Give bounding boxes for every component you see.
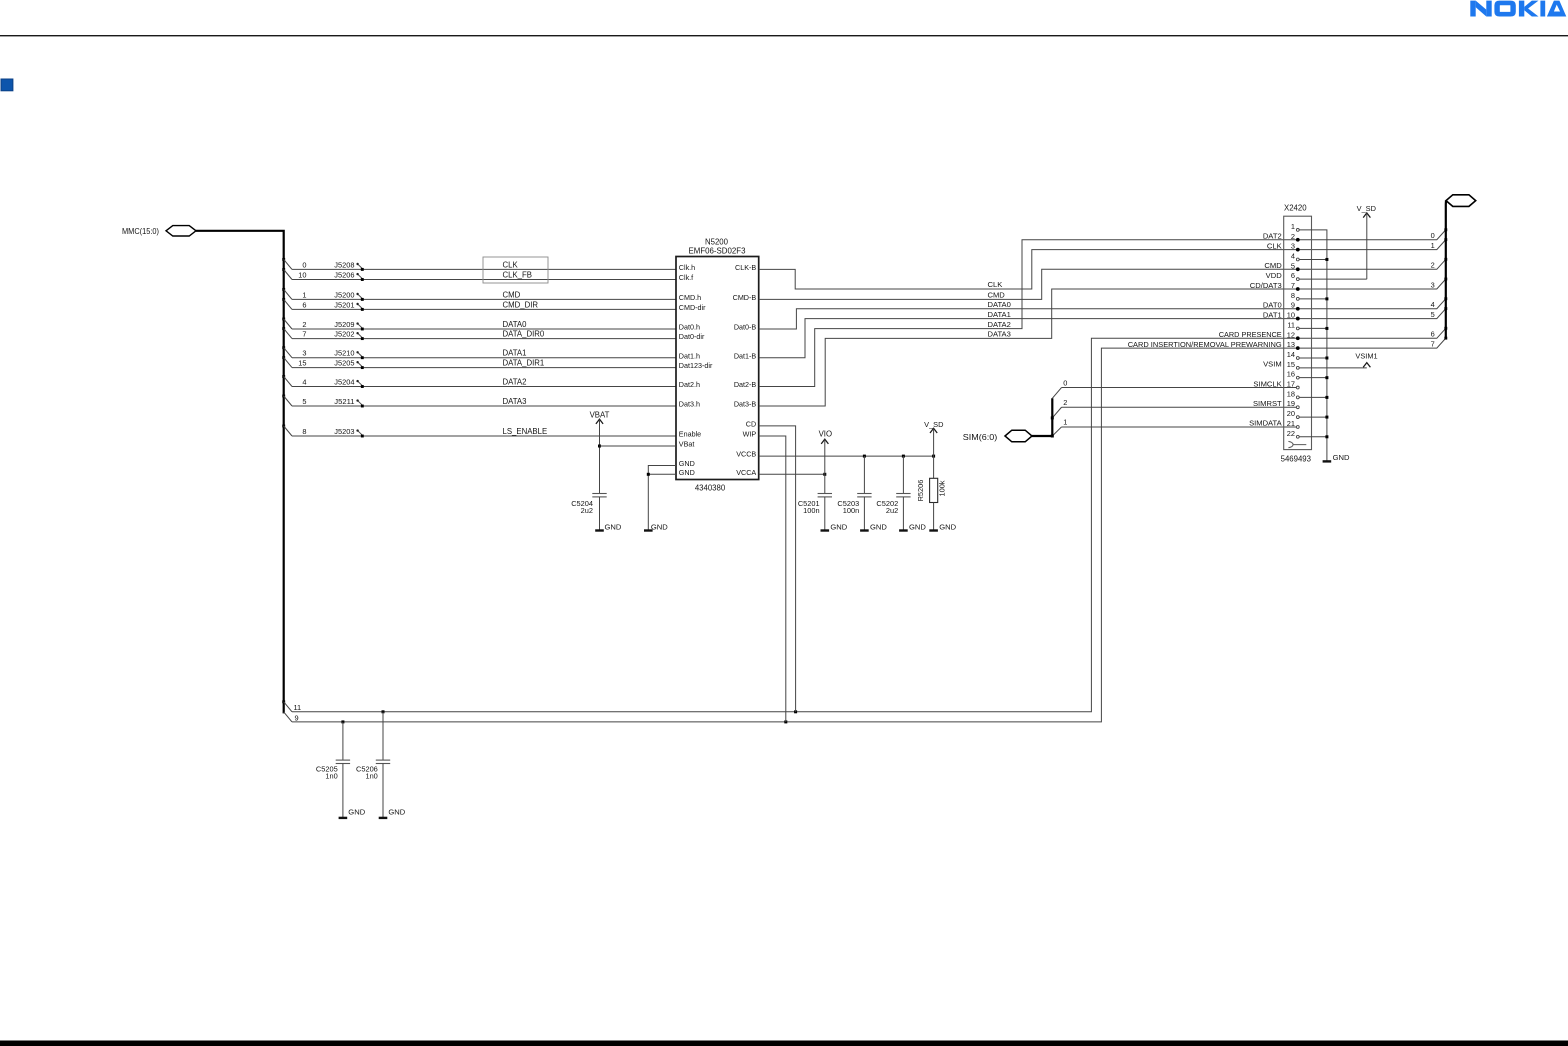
capacitor C5201 100n [798,494,832,531]
svg-text:1n0: 1n0 [365,772,377,781]
svg-text:DATA0: DATA0 [988,300,1011,309]
svg-text:1: 1 [1291,222,1295,231]
card-side bus tap numbers and junctions [1431,228,1448,348]
svg-text:VSIM1: VSIM1 [1355,351,1377,360]
svg-text:CLK: CLK [988,280,1003,289]
svg-text:CMD: CMD [503,290,521,299]
svg-text:VBAT: VBAT [590,410,610,419]
ground (C5201) [821,522,848,531]
svg-text:8: 8 [302,427,306,436]
svg-text:CMD.h: CMD.h [679,293,701,302]
svg-text:1n0: 1n0 [325,772,337,781]
svg-text:2u2: 2u2 [886,506,898,515]
capacitor C5202 2u2 [876,456,910,530]
wire net CARD PRESENCE (bus 11 to pin12, tap 6) [292,328,1446,712]
svg-text:J5201: J5201 [334,300,354,309]
wire SIM bus trunk [1032,398,1052,436]
svg-text:J5210: J5210 [334,349,354,358]
svg-text:X2420: X2420 [1284,204,1307,213]
svg-text:2: 2 [1431,261,1435,270]
X2420 left net labels [1128,232,1283,428]
svg-text:6: 6 [1431,330,1435,339]
wire SIM bit 2 to X2420 pin 19 [1051,398,1296,419]
ground (chip) [644,522,668,531]
svg-text:VBat: VBat [679,440,695,449]
svg-text:DATA_DIR1: DATA_DIR1 [503,359,545,368]
svg-text:CLK: CLK [1267,241,1282,250]
svg-text:0: 0 [1063,378,1067,387]
svg-text:J5205: J5205 [334,359,354,368]
wire net DATA3 / CD-DAT3 (Dat3-B to pin7, tap 3) [759,279,1446,406]
svg-text:DAT1: DAT1 [1263,310,1282,319]
svg-text:GND: GND [348,808,365,817]
capacitor C5203 100n [837,456,871,530]
svg-text:GND: GND [939,522,956,531]
header rule [0,35,1568,36]
svg-text:Dat0.h: Dat0.h [679,323,700,332]
ground (C5202) [899,522,926,531]
svg-text:J5204: J5204 [334,377,354,386]
wire MMC bit 0 / J5208 / net CLK [282,258,676,271]
wire MMC bit 7 / J5202 / net DATA_DIR0 [282,327,676,340]
wire net CARD INSERTION (bus 9 to pin13, tap 7) [292,338,1446,722]
wire MMC bit 5 / J5211 / net DATA3 [282,395,676,408]
svg-text:3: 3 [1431,280,1435,289]
svg-text:GND: GND [651,522,668,531]
svg-text:VIO: VIO [819,430,832,439]
svg-text:CMD-dir: CMD-dir [679,303,706,312]
svg-text:7: 7 [302,330,306,339]
svg-text:12: 12 [1287,330,1295,339]
svg-text:7: 7 [1431,339,1435,348]
svg-text:J5203: J5203 [334,427,354,436]
svg-text:DATA2: DATA2 [988,320,1011,329]
svg-text:Dat1.h: Dat1.h [679,351,700,360]
svg-text:CD/DAT3: CD/DAT3 [1250,281,1282,290]
svg-text:GND: GND [1333,453,1350,462]
svg-text:CMD-B: CMD-B [733,293,757,302]
svg-text:5: 5 [1431,310,1435,319]
svg-text:Dat3-B: Dat3-B [734,400,757,409]
svg-text:WIP: WIP [743,430,757,439]
capacitor C5204 2u2 [571,494,606,531]
power V_SD (mid) [924,420,943,478]
svg-text:DATA_DIR0: DATA_DIR0 [503,330,545,339]
svg-text:GND: GND [679,459,695,468]
svg-text:Dat3.h: Dat3.h [679,400,700,409]
svg-text:11: 11 [294,703,302,712]
svg-text:15: 15 [1287,360,1295,369]
svg-text:EMF06-SD02F3: EMF06-SD02F3 [689,246,746,255]
svg-text:GND: GND [388,808,405,817]
svg-text:CMD: CMD [988,291,1006,300]
svg-text:GND: GND [679,468,695,477]
svg-text:Dat1-B: Dat1-B [734,351,757,360]
ground (C5204) [595,522,622,531]
level shifter U N5200 EMF06-SD02F3 [676,238,759,493]
svg-text:Dat0-B: Dat0-B [734,323,757,332]
wire MMC bit 15 / J5205 / net DATA_DIR1 [282,356,676,369]
svg-text:J5208: J5208 [334,260,354,269]
svg-text:1: 1 [302,290,306,299]
power V_SD (X2420 VDD pin6) [1299,204,1376,279]
wire CD pin drop [759,426,796,712]
wire net DATA0 (Dat0-B to pin9, tap 4) [759,299,1446,329]
svg-text:4340380: 4340380 [695,483,726,492]
MMC card-side bus cartouche [1446,195,1476,207]
svg-text:Dat0-dir: Dat0-dir [679,332,705,341]
svg-text:2: 2 [1063,398,1067,407]
wire bottom bus tap 9 [284,712,299,722]
svg-text:DATA3: DATA3 [503,397,527,406]
svg-text:5469493: 5469493 [1281,455,1311,464]
power VIO [819,430,832,494]
svg-text:9: 9 [295,713,299,722]
wire MMC bit 10 / J5206 / net CLK_FB [282,268,676,281]
blue section marker square [1,79,13,91]
svg-text:CD: CD [746,420,756,429]
svg-text:J5206: J5206 [334,270,354,279]
N5200 right pin labels [733,263,757,477]
svg-text:VCCB: VCCB [736,450,756,459]
svg-text:11: 11 [1287,320,1295,329]
svg-text:15: 15 [298,359,306,368]
wire VCCB rail [759,455,935,458]
svg-text:5: 5 [302,397,306,406]
svg-text:SIM(6:0): SIM(6:0) [963,432,998,442]
svg-text:14: 14 [1287,350,1295,359]
power VBAT [590,410,610,493]
svg-text:DAT2: DAT2 [1263,232,1282,241]
net SIM(6:0) bus label [963,432,998,442]
connector X2420 [1281,204,1312,464]
svg-text:20: 20 [1287,409,1295,418]
wire SIM bit 0 to X2420 pin 17 [1052,378,1296,398]
svg-text:Dat123-dir: Dat123-dir [679,361,713,370]
svg-text:18: 18 [1287,389,1295,398]
svg-text:8: 8 [1291,291,1295,300]
svg-text:16: 16 [1287,370,1295,379]
wire X2420 unused pins to GND rail [1299,230,1328,461]
svg-text:2: 2 [1291,232,1295,241]
svg-text:SIMCLK: SIMCLK [1253,379,1281,388]
svg-text:100n: 100n [843,506,859,515]
ground (C5206) [379,808,406,818]
svg-text:J5211: J5211 [334,397,354,406]
svg-text:4: 4 [1291,251,1295,260]
svg-text:DATA2: DATA2 [503,378,527,387]
svg-text:DATA1: DATA1 [503,349,527,358]
wire net DATA2 (Dat2-B to pin2, tap 0) [759,230,1446,387]
svg-text:VDD: VDD [1266,271,1283,280]
wire WIP pin drop [759,436,786,722]
svg-text:MMC(15:0): MMC(15:0) [122,226,159,236]
svg-text:6: 6 [1291,271,1295,280]
svg-text:3: 3 [1291,242,1295,251]
resistor R5206 100k [916,478,946,530]
svg-text:1: 1 [1431,241,1435,250]
svg-text:5: 5 [1291,261,1295,270]
svg-text:10: 10 [298,271,306,280]
svg-text:DAT0: DAT0 [1263,301,1282,310]
svg-text:0: 0 [302,260,306,269]
svg-text:6: 6 [302,300,306,309]
svg-text:CLK: CLK [503,260,519,269]
node box around CLK / CLK_FB [483,257,548,283]
ground (C5205) [339,808,366,818]
svg-text:100k: 100k [938,480,947,496]
svg-text:Enable: Enable [679,430,701,439]
MMC bus cartouche [166,226,196,236]
capacitor C5206 1n0 [356,712,390,818]
svg-text:Dat2.h: Dat2.h [679,380,700,389]
wire card-side bus trunk [1445,201,1447,339]
svg-text:2u2: 2u2 [581,506,593,515]
wire SIM bit 1 to X2420 pin 21 [1051,418,1296,438]
svg-text:CLK-B: CLK-B [735,263,756,272]
svg-text:J5202: J5202 [334,330,354,339]
power VSIM1 (X2420 pin15) [1299,351,1377,367]
X2420 pin numbers and contacts [1287,222,1300,438]
wire MMC bit 3 / J5210 / net DATA1 [282,346,676,359]
svg-text:4: 4 [1431,300,1435,309]
svg-text:Dat2-B: Dat2-B [734,380,757,389]
svg-text:CARD INSERTION/REMOVAL PREWARN: CARD INSERTION/REMOVAL PREWARNING [1128,340,1282,349]
svg-text:CARD PRESENCE: CARD PRESENCE [1219,330,1282,339]
svg-text:CLK_FB: CLK_FB [503,271,532,280]
wire VCCA rail [759,473,827,476]
wire MMC bit 4 / J5204 / net DATA2 [282,375,676,388]
svg-text:2: 2 [302,320,306,329]
svg-text:VCCA: VCCA [736,468,756,477]
net MMC(15:0) bus label [122,226,159,236]
wire VBat pin [600,445,677,447]
svg-text:10: 10 [1287,311,1295,320]
wire net CMD (CMD-B to X2420 pin5, tap 2) [759,259,1446,299]
wire MMC bit 6 / J5201 / net CMD_DIR [282,298,676,311]
svg-text:GND: GND [605,522,622,531]
capacitor C5205 1n0 [316,722,350,818]
wire MMC bit 1 / J5200 / net CMD [282,288,676,301]
svg-text:CMD_DIR: CMD_DIR [503,300,539,309]
svg-text:100n: 100n [803,506,819,515]
SIM bus cartouche [1005,430,1032,442]
wire MMC bit 8 / J5203 / net LS_ENABLE [282,425,676,438]
svg-text:DATA0: DATA0 [503,320,528,329]
svg-text:Clk.h: Clk.h [679,263,695,272]
wire bottom bus tap 11 [282,700,301,712]
svg-text:GND: GND [830,522,847,531]
svg-text:1: 1 [1063,418,1067,427]
svg-text:3: 3 [302,349,306,358]
svg-text:SIMRST: SIMRST [1253,399,1282,408]
svg-text:V_SD: V_SD [1357,204,1376,213]
lane labels CLK CMD DATA0-3 [988,280,1011,338]
svg-text:21: 21 [1287,419,1295,428]
NOKIA logo [1470,1,1566,17]
svg-text:SIMDATA: SIMDATA [1249,419,1283,428]
N5200 left pin labels [679,263,713,477]
ground (X2420 rail) [1323,453,1350,462]
svg-text:LS_ENABLE: LS_ENABLE [503,427,548,436]
svg-text:DATA3: DATA3 [988,330,1011,339]
wire net CLK (CLK-B to X2420 pin3 and MMC2 tap 1) [759,240,1446,289]
svg-text:13: 13 [1287,340,1295,349]
svg-text:GND: GND [909,522,926,531]
footer bar [0,1041,1568,1046]
X2420 polarization key [1288,441,1306,447]
wire net DATA1 (Dat1-B to pin10, tap 5) [759,309,1446,358]
svg-text:4: 4 [302,378,306,387]
svg-text:R5206: R5206 [916,480,925,502]
svg-text:J5209: J5209 [334,320,354,329]
svg-text:J5200: J5200 [334,290,354,299]
svg-text:7: 7 [1291,281,1295,290]
svg-text:22: 22 [1287,429,1295,438]
svg-text:9: 9 [1291,301,1295,310]
svg-text:N5200: N5200 [705,238,729,247]
wire MMC bit 2 / J5209 / net DATA0 [282,318,676,331]
svg-text:Clk.f: Clk.f [679,273,693,282]
svg-text:0: 0 [1431,231,1435,240]
svg-text:VSIM: VSIM [1263,360,1282,369]
svg-text:DATA1: DATA1 [988,310,1011,319]
ground (R5206) [929,522,956,531]
ground (C5203) [860,522,887,531]
svg-text:17: 17 [1287,380,1295,389]
wire MMC bus trunk [196,231,284,714]
wire chip GND pins [647,466,676,531]
svg-text:19: 19 [1287,399,1295,408]
svg-text:CMD: CMD [1264,261,1282,270]
svg-text:GND: GND [870,522,887,531]
